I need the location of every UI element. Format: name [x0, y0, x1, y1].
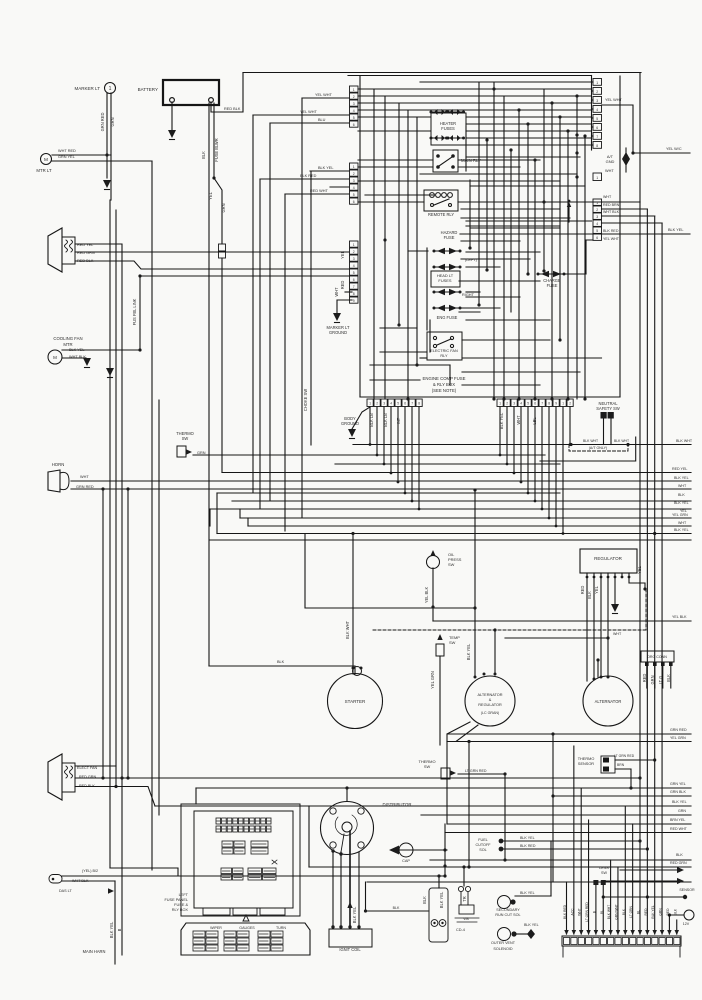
- svg-text:SW: SW: [449, 640, 456, 645]
- svg-text:ALTERNATOR: ALTERNATOR: [477, 693, 502, 697]
- svg-text:FUS FBL LINK: FUS FBL LINK: [132, 298, 137, 325]
- svg-text:RED YEL: RED YEL: [672, 467, 687, 471]
- wire fusible link: [140, 275, 349, 277]
- wire strip pin to trunk d: [602, 222, 663, 224]
- wire vertical 469: [468, 742, 470, 868]
- svg-text:RED WHT: RED WHT: [310, 189, 329, 193]
- svg-text:MTR: MTR: [63, 342, 72, 347]
- svg-text:INT: INT: [396, 417, 401, 424]
- cd box: [429, 888, 448, 942]
- outer vent solenoid: [498, 928, 511, 941]
- svg-text:DAS LT: DAS LT: [59, 889, 72, 893]
- wire horn branch down: [102, 489, 104, 778]
- wire battery ground: [171, 102, 173, 130]
- svg-text:2: 2: [353, 95, 355, 99]
- svg-text:M: M: [53, 355, 57, 360]
- svg-text:GRN WHT: GRN WHT: [614, 904, 618, 920]
- wire wht to alternator: [505, 637, 608, 639]
- svg-text:BLK WHT: BLK WHT: [345, 620, 350, 639]
- vibrator: [458, 886, 463, 891]
- regulator pins: [586, 573, 588, 577]
- wire distributor feed: [346, 788, 348, 801]
- wire regulator drop wht: [607, 577, 609, 677]
- svg-text:BLK YEL: BLK YEL: [318, 166, 333, 170]
- svg-text:VIB: VIB: [463, 917, 469, 921]
- wire feed blu: [270, 122, 349, 124]
- distributor: [321, 802, 374, 855]
- wire cooling fan feed: [62, 349, 140, 351]
- svg-text:GRN YEL: GRN YEL: [670, 782, 686, 786]
- svg-text:6: 6: [353, 123, 355, 127]
- wire blk yel right: [602, 233, 691, 235]
- svg-text:GROUND: GROUND: [329, 330, 347, 335]
- svg-text:BATTERY: BATTERY: [138, 87, 158, 92]
- svg-text:ELECTRIC FAN: ELECTRIC FAN: [430, 349, 458, 353]
- wire horn 2: [71, 488, 691, 490]
- svg-text:YEL WHT: YEL WHT: [605, 98, 623, 102]
- rev lamp circle: [684, 910, 694, 920]
- svg-text:3: 3: [353, 179, 355, 183]
- battery: [163, 80, 219, 105]
- svg-text:6: 6: [353, 278, 355, 282]
- svg-text:5: 5: [353, 116, 355, 120]
- bottom connector strip right group: [497, 399, 503, 407]
- svg-text:FUSE: FUSE: [444, 235, 455, 240]
- ground battery: [168, 130, 176, 138]
- svg-text:FUSE &: FUSE &: [174, 903, 188, 907]
- svg-text:(LC GRAN): (LC GRAN): [481, 711, 499, 715]
- svg-text:5: 5: [596, 229, 598, 233]
- wire strip pin to trunk c: [602, 215, 655, 217]
- svg-text:BLK YEL: BLK YEL: [524, 923, 539, 927]
- right connector strip upper: [593, 79, 602, 86]
- svg-text:3: 3: [596, 99, 598, 103]
- svg-text:GND: GND: [606, 159, 615, 164]
- svg-text:1: 1: [353, 88, 355, 92]
- main rly: [433, 150, 458, 172]
- svg-text:BLU: BLU: [318, 118, 326, 122]
- neutral box outline: [540, 437, 636, 461]
- wire sensor line: [603, 896, 685, 898]
- svg-text:& RLY BOX: & RLY BOX: [433, 382, 455, 387]
- svg-text:FUSES: FUSES: [441, 126, 455, 131]
- wire altreg bottom 2: [447, 725, 691, 742]
- wire feed red wht: [285, 193, 349, 195]
- svg-text:BLK RED: BLK RED: [563, 904, 567, 919]
- svg-text:CHOKE SW: CHOKE SW: [303, 389, 308, 411]
- svg-text:1: 1: [353, 243, 355, 247]
- svg-text:ENG FUSE: ENG FUSE: [437, 315, 458, 320]
- svg-text:5: 5: [596, 117, 598, 121]
- oil press sw: [430, 550, 435, 556]
- svg-text:WHT: WHT: [678, 521, 687, 525]
- svg-text:8: 8: [353, 292, 355, 296]
- svg-text:B: B: [117, 928, 122, 931]
- svg-text:BLK YEL: BLK YEL: [668, 228, 683, 232]
- wire blower 3 jog: [75, 261, 349, 269]
- wire bottom strip pin drops: [369, 407, 371, 445]
- junction dots box mesh: [492, 87, 495, 90]
- wire starter cable blk: [209, 666, 355, 674]
- svg-text:3: 3: [513, 402, 515, 406]
- wire mid 881: [367, 881, 691, 883]
- wire cd feeds: [438, 876, 440, 888]
- charge fuse: [541, 271, 549, 277]
- svg-text:RED BRN: RED BRN: [603, 203, 620, 207]
- svg-text:2: 2: [596, 208, 598, 212]
- wire bus 473: [222, 472, 691, 474]
- alternator and regulator: [465, 676, 515, 726]
- cap: [389, 846, 399, 855]
- svg-text:YEL: YEL: [208, 191, 213, 199]
- svg-text:2: 2: [353, 172, 355, 176]
- temp sw: [437, 634, 442, 640]
- eng fuse: [437, 305, 445, 311]
- svg-text:8: 8: [548, 402, 550, 406]
- svg-text:YEL WHT: YEL WHT: [315, 93, 333, 97]
- svg-text:(YEL) B/2: (YEL) B/2: [82, 869, 98, 873]
- svg-text:SOL: SOL: [479, 848, 486, 852]
- svg-text:BLK: BLK: [666, 674, 671, 682]
- svg-text:RED: RED: [666, 908, 670, 916]
- svg-text:6: 6: [404, 402, 406, 406]
- wire stub arrow: [568, 205, 570, 222]
- alternator: [583, 676, 633, 726]
- svg-text:BLK YEL: BLK YEL: [520, 891, 535, 895]
- svg-text:IGNIT COIL: IGNIT COIL: [339, 947, 361, 952]
- wire oil press run: [432, 568, 434, 621]
- svg-text:4: 4: [520, 402, 522, 406]
- svg-text:BLK WHT: BLK WHT: [607, 905, 611, 920]
- wire sol leads: [503, 840, 640, 842]
- svg-text:BLK: BLK: [673, 908, 677, 915]
- wire feed yel wht 2: [253, 114, 349, 116]
- svg-text:2: 2: [506, 402, 508, 406]
- heater fuses: [431, 113, 466, 145]
- svg-text:6: 6: [596, 126, 598, 130]
- left fuse panel inner: [194, 811, 293, 908]
- svg-text:RED: RED: [580, 586, 585, 595]
- svg-text:4: 4: [353, 264, 355, 268]
- svg-text:BLK: BLK: [393, 906, 400, 910]
- wire regulator drop yel: [600, 577, 602, 677]
- svg-text:BLK YEL: BLK YEL: [672, 800, 687, 804]
- ground cooling fan: [83, 358, 91, 366]
- svg-text:STARTER: STARTER: [345, 699, 366, 704]
- svg-text:TURN: TURN: [276, 926, 286, 930]
- wire long 796: [553, 795, 691, 797]
- wire neutral sw bus: [353, 444, 691, 446]
- wire thermo sw lower run: [458, 773, 505, 775]
- left fuse panel outer: [181, 804, 300, 916]
- wire long 833: [445, 832, 691, 834]
- svg-text:3: 3: [353, 257, 355, 261]
- svg-text:RED BLK: RED BLK: [224, 107, 241, 111]
- svg-text:(SEE NOTE): (SEE NOTE): [432, 388, 457, 393]
- arrow bar a: [620, 869, 678, 871]
- svg-text:LT GRN RED: LT GRN RED: [585, 902, 589, 922]
- svg-text:BLK YEL: BLK YEL: [674, 528, 689, 532]
- svg-text:BLK YEL: BLK YEL: [439, 891, 444, 908]
- svg-text:REMOTE RLY: REMOTE RLY: [428, 212, 454, 217]
- wire mid 860: [430, 859, 691, 861]
- svg-text:BLK YEL: BLK YEL: [352, 906, 357, 923]
- svg-text:4: 4: [353, 109, 355, 113]
- wire feed blk yel: [310, 170, 349, 172]
- svg-text:WIPER: WIPER: [210, 926, 222, 930]
- wire long 806: [155, 805, 691, 807]
- wire heater blower 3: [75, 787, 155, 807]
- svg-text:BLK WHT: BLK WHT: [614, 439, 629, 443]
- wire bus 509: [210, 508, 691, 510]
- engine comp fuse and rly box outline: [359, 76, 361, 397]
- svg-text:MAIN HARN: MAIN HARN: [83, 949, 106, 954]
- svg-text:RED: RED: [644, 908, 648, 916]
- wire alternator top stubs: [597, 660, 599, 677]
- wire bus 526: [248, 525, 691, 527]
- wire dashed at only: [569, 445, 628, 452]
- wire regulator drop blk: [593, 577, 595, 679]
- wire harness left v7: [158, 400, 160, 815]
- wire altreg bottom 1: [447, 722, 691, 734]
- svg-text:2: 2: [596, 90, 598, 94]
- svg-text:BLK YEL: BLK YEL: [466, 643, 471, 660]
- svg-text:SAFETY SW: SAFETY SW: [596, 406, 620, 411]
- svg-text:RED GRN: RED GRN: [670, 861, 687, 865]
- wire battery positive RED BLK: [211, 73, 243, 113]
- svg-text:BLK YEL: BLK YEL: [499, 412, 504, 429]
- svg-text:1: 1: [369, 402, 371, 406]
- wire bus 493: [217, 492, 560, 494]
- arrow bar b: [604, 880, 678, 882]
- svg-text:OUTER VENT: OUTER VENT: [491, 941, 516, 945]
- svg-text:BLK LB: BLK LB: [383, 413, 388, 427]
- bottom connector strip left group: [367, 399, 373, 407]
- svg-text:CUTOFF: CUTOFF: [475, 843, 491, 847]
- wire mid 867: [309, 866, 691, 868]
- regulator: [580, 549, 637, 573]
- wire long 824: [447, 823, 691, 825]
- svg-text:3: 3: [383, 402, 385, 406]
- marker lt ground label: [337, 300, 352, 313]
- svg-text:5: 5: [397, 402, 399, 406]
- wire box top line: [348, 75, 592, 77]
- motor lamp M: [41, 154, 52, 165]
- bottom right connector strip: [562, 936, 681, 946]
- wire vibrator up: [463, 867, 465, 886]
- svg-text:3: 3: [596, 215, 598, 219]
- svg-text:CD-4: CD-4: [456, 928, 466, 932]
- wire distributor drops: [332, 852, 334, 927]
- wire strip pin to trunk a: [602, 201, 641, 203]
- svg-text:ELECT FAN: ELECT FAN: [77, 766, 97, 770]
- svg-text:BLK WHT: BLK WHT: [676, 439, 693, 443]
- svg-text:BLK YEL: BLK YEL: [651, 905, 655, 918]
- wire bus 533: [217, 533, 691, 535]
- svg-text:SW: SW: [424, 764, 431, 769]
- svg-text:WHT BLK: WHT BLK: [603, 210, 620, 214]
- wire bus 464: [335, 463, 560, 465]
- wire long 815: [421, 814, 691, 816]
- bottom strip risers: [566, 882, 568, 934]
- right connector strip lower: [593, 199, 602, 205]
- wire blower 2: [75, 251, 349, 253]
- wire regulator gnd: [614, 577, 616, 604]
- svg-text:RED: RED: [642, 674, 647, 683]
- wire right trunk vertical: [639, 73, 641, 935]
- fuse group mid: [222, 841, 233, 847]
- svg-text:3: 3: [353, 102, 355, 106]
- svg-text:4: 4: [390, 402, 392, 406]
- svg-text:LT GRN: LT GRN: [629, 906, 633, 918]
- wire harness left v6: [151, 161, 153, 870]
- svg-text:&: &: [489, 698, 492, 702]
- wire harness left v5: [127, 489, 129, 778]
- svg-text:WHT: WHT: [605, 169, 614, 173]
- wire feed blk red: [260, 178, 349, 180]
- wire marker light pair: [106, 93, 108, 178]
- wire horn 1: [71, 480, 691, 482]
- svg-text:TR: TR: [462, 896, 467, 901]
- svg-text:4: 4: [353, 186, 355, 190]
- fuse row top: [216, 818, 221, 824]
- svg-text:GRN BLK: GRN BLK: [670, 790, 686, 794]
- wire bus 518: [240, 517, 691, 519]
- svg-text:(LEFT): (LEFT): [465, 258, 478, 262]
- marker light lamp: [105, 83, 116, 94]
- wire vertical 553: [552, 734, 554, 882]
- wire cap vertical: [444, 824, 446, 876]
- svg-text:GRN YEL: GRN YEL: [58, 155, 75, 159]
- ground marker wire: [103, 180, 111, 188]
- inline connector battery wire: [219, 244, 226, 251]
- wire box mesh horizontals: [358, 88, 591, 90]
- svg-text:7: 7: [353, 285, 355, 289]
- wire yel wc run: [633, 152, 690, 154]
- wire regulator drop red: [586, 577, 588, 681]
- wire heater blower 2: [75, 777, 640, 779]
- wire thermo sensor runs: [615, 759, 655, 761]
- svg-text:MARKER LT: MARKER LT: [74, 86, 100, 91]
- org conn connector: [641, 651, 674, 662]
- svg-text:BRN YEL: BRN YEL: [670, 818, 685, 822]
- svg-text:BLK LB: BLK LB: [369, 413, 374, 427]
- svg-text:SENSOR: SENSOR: [578, 762, 594, 766]
- svg-text:COOLING FAN: COOLING FAN: [53, 336, 82, 341]
- svg-text:12V: 12V: [683, 922, 690, 926]
- wire stubs right strip: [592, 81, 594, 83]
- wire regulator corner: [629, 577, 645, 589]
- wire mid 874: [62, 875, 445, 877]
- svg-text:REGULATOR: REGULATOR: [478, 703, 502, 707]
- svg-text:ACC: ACC: [570, 908, 574, 916]
- wire feed yel wht 1: [302, 97, 349, 99]
- svg-text:LBL: LBL: [532, 417, 537, 425]
- svg-text:GRN RED: GRN RED: [100, 113, 105, 132]
- svg-text:SOLENOID: SOLENOID: [493, 947, 513, 951]
- right strip single box: [593, 173, 602, 181]
- wire sol trunk: [550, 841, 552, 896]
- svg-text:BLK: BLK: [201, 151, 206, 159]
- svg-text:MTR LT: MTR LT: [36, 168, 52, 173]
- svg-text:1: 1: [353, 165, 355, 169]
- wire dash lt: [62, 880, 115, 882]
- svg-text:WHT RED: WHT RED: [58, 149, 76, 153]
- svg-text:(A/T ONLY): (A/T ONLY): [589, 446, 608, 450]
- wire harness left v3: [115, 210, 117, 787]
- remote rly: [424, 190, 458, 211]
- svg-text:SW: SW: [601, 871, 607, 875]
- svg-text:6: 6: [534, 402, 536, 406]
- svg-text:BLK: BLK: [676, 853, 683, 857]
- svg-text:1: 1: [109, 86, 112, 92]
- svg-text:YEL WHT: YEL WHT: [300, 110, 318, 114]
- svg-text:GRN: GRN: [197, 451, 206, 455]
- svg-text:7: 7: [596, 135, 598, 139]
- svg-text:6: 6: [353, 200, 355, 204]
- svg-text:BLK: BLK: [422, 896, 427, 904]
- svg-text:BLK: BLK: [277, 660, 285, 664]
- svg-text:LENS: LENS: [599, 866, 609, 870]
- svg-text:7: 7: [411, 402, 413, 406]
- svg-text:5: 5: [353, 193, 355, 197]
- wire strip pin to trunk b: [602, 208, 648, 210]
- svg-text:WHT: WHT: [613, 632, 622, 636]
- svg-text:8: 8: [596, 144, 598, 148]
- right strip vertical edge: [591, 76, 593, 151]
- svg-text:BLK RED: BLK RED: [520, 844, 536, 848]
- svg-text:BLK WHT: BLK WHT: [583, 439, 598, 443]
- svg-text:4: 4: [596, 222, 598, 226]
- svg-text:FUSE BLWR: FUSE BLWR: [214, 138, 219, 161]
- svg-text:GRN: GRN: [110, 117, 115, 126]
- dashed field wire: [645, 589, 647, 630]
- secondary run cut sol: [498, 896, 511, 909]
- wire box mesh verticals: [373, 89, 375, 399]
- svg-text:SENSOR: SENSOR: [679, 888, 695, 892]
- wire motor to harness: [52, 154, 111, 156]
- svg-text:YEL BLK: YEL BLK: [672, 615, 687, 619]
- svg-text:8: 8: [418, 402, 420, 406]
- svg-text:RED WHT: RED WHT: [670, 827, 688, 831]
- fuse panel tabs: [203, 908, 230, 915]
- svg-text:2: 2: [353, 250, 355, 254]
- svg-text:5: 5: [527, 402, 529, 406]
- wire choke sw branch: [310, 171, 312, 445]
- svg-text:BL: BL: [600, 910, 604, 914]
- electric fan rly: [427, 332, 462, 360]
- svg-text:ALTERNATOR: ALTERNATOR: [595, 699, 622, 704]
- svg-text:4: 4: [596, 108, 598, 112]
- svg-text:BLK: BLK: [587, 591, 592, 599]
- svg-text:BLK: BLK: [622, 908, 626, 915]
- wire bus 455: [342, 454, 545, 456]
- svg-text:2: 2: [376, 402, 378, 406]
- svg-text:BLK YEL: BLK YEL: [674, 476, 689, 480]
- svg-text:5: 5: [353, 271, 355, 275]
- svg-text:HORN: HORN: [52, 462, 65, 467]
- wire starter feed blk wht: [352, 534, 354, 675]
- blower motor: [48, 228, 62, 272]
- wire 366 drop: [366, 882, 430, 911]
- wire long 788: [196, 787, 691, 789]
- wire top feed line: [243, 72, 641, 74]
- svg-text:GAUGES: GAUGES: [239, 926, 255, 930]
- svg-text:BRN: BRN: [617, 763, 625, 767]
- svg-text:YEL GRN: YEL GRN: [670, 736, 686, 740]
- svg-text:GRN: GRN: [659, 908, 663, 916]
- svg-text:GRN: GRN: [221, 203, 226, 212]
